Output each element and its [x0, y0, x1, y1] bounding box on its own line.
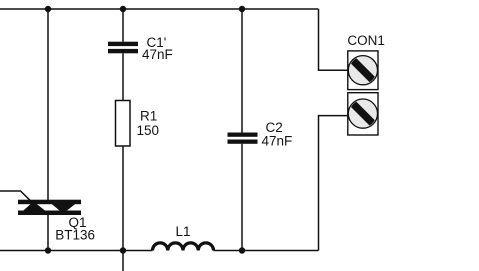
node bottom rail / C2 column — [239, 247, 245, 253]
connector CON1 — [348, 51, 378, 135]
triac Q1 — [18, 200, 81, 215]
CON1 terminal 2 box — [348, 93, 378, 135]
wire Q1 MT1 to bottom rail — [47, 215, 49, 251]
svg-text:150: 150 — [137, 123, 160, 138]
resistor R1 — [116, 101, 131, 147]
capacitor C1' — [108, 42, 138, 54]
wire top rail — [0, 8, 319, 10]
wire top rail to C1' — [122, 9, 124, 42]
node bottom rail / Q1 column — [45, 247, 51, 253]
svg-text:BT136: BT136 — [55, 227, 95, 242]
node bottom rail / R1 column — [120, 247, 126, 253]
wire bottom rail right segment — [214, 250, 319, 252]
node top rail / C1' column — [120, 6, 126, 12]
node top rail / C2 column — [239, 6, 245, 12]
node top rail / Q1 column — [45, 6, 51, 12]
CON1 terminal 2 screw — [348, 99, 377, 128]
svg-text:L1: L1 — [176, 224, 191, 239]
CON1 terminal 1 box — [348, 51, 378, 90]
wire C2 to bottom rail — [241, 144, 243, 251]
inductor L1 — [153, 243, 214, 251]
CON1 terminal 1 screw — [348, 56, 377, 85]
wire top rail to Q1 MT2 — [47, 9, 49, 201]
wire R1 to bottom rail and below — [122, 146, 124, 271]
wire CON1 pin 2 down to bottom rail — [319, 116, 348, 251]
wire C1' to R1 — [122, 53, 124, 100]
wire bottom rail left segment — [0, 250, 153, 252]
wire gate of Q1 — [0, 191, 31, 201]
svg-text:R1: R1 — [140, 109, 157, 124]
svg-text:47nF: 47nF — [262, 134, 293, 149]
capacitor C2 — [228, 133, 258, 144]
svg-text:47nF: 47nF — [142, 47, 173, 62]
wire top rail to C2 — [241, 9, 243, 133]
svg-text:CON1: CON1 — [347, 33, 385, 48]
wire right vertical to CON1 pin 1 — [319, 9, 348, 70]
